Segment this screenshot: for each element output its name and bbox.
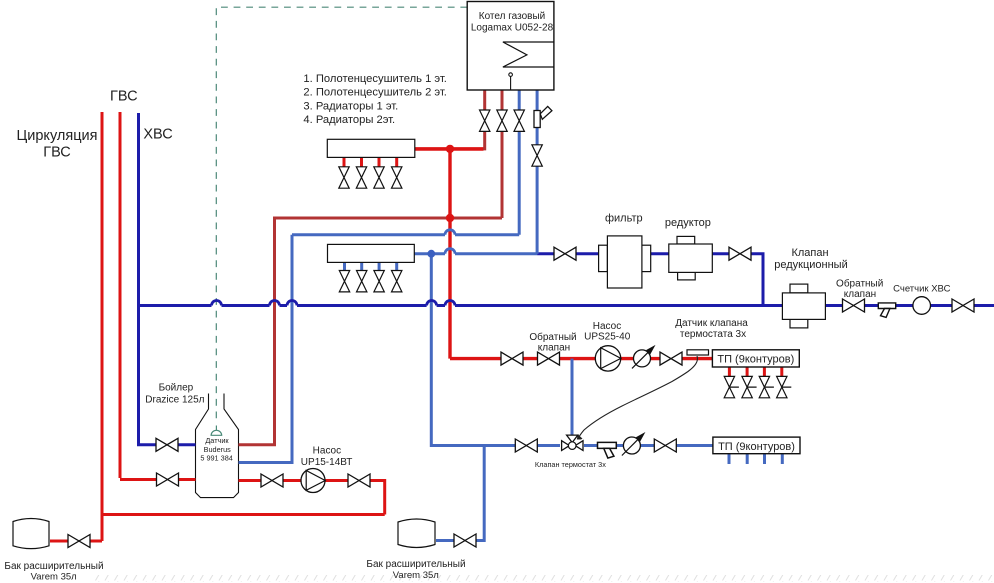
svg-text:ТП (9контуров): ТП (9контуров) xyxy=(718,441,795,453)
svg-text:Бойлер: Бойлер xyxy=(159,382,194,393)
svg-text:термостата 3х: термостата 3х xyxy=(680,329,746,340)
svg-text:Обратный: Обратный xyxy=(529,331,576,343)
svg-text:ХВС: ХВС xyxy=(143,127,172,143)
svg-text:Бак расширительный: Бак расширительный xyxy=(366,559,465,570)
svg-text:ТП (9контуров): ТП (9контуров) xyxy=(717,354,794,366)
svg-text:3. Радиаторы 1 эт.: 3. Радиаторы 1 эт. xyxy=(303,100,398,112)
svg-text:Котел газовый: Котел газовый xyxy=(479,11,545,22)
svg-text:Varem 35л: Varem 35л xyxy=(393,570,439,581)
svg-text:Varem 35л: Varem 35л xyxy=(31,572,77,583)
svg-text:Drazice 125л: Drazice 125л xyxy=(145,394,204,405)
svg-text:Клапан термостат 3х: Клапан термостат 3х xyxy=(535,460,606,469)
svg-text:Бак расширительный: Бак расширительный xyxy=(4,561,103,572)
svg-text:Обратный: Обратный xyxy=(836,277,883,289)
svg-text:1. Полотенцесушитель 1 эт.: 1. Полотенцесушитель 1 эт. xyxy=(303,73,447,85)
svg-text:5 991 384: 5 991 384 xyxy=(200,454,232,463)
svg-text:редуктор: редуктор xyxy=(665,217,711,229)
svg-text:Циркуляция: Циркуляция xyxy=(17,128,98,144)
svg-text:Клапан: Клапан xyxy=(791,247,828,259)
svg-text:клапан: клапан xyxy=(844,289,876,300)
svg-text:ГВС: ГВС xyxy=(110,88,138,104)
svg-text:Logamax U052-28: Logamax U052-28 xyxy=(471,22,554,33)
svg-text:Датчик: Датчик xyxy=(205,436,229,445)
svg-text:Счетчик ХВС: Счетчик ХВС xyxy=(893,284,950,295)
svg-text:Датчик клапана: Датчик клапана xyxy=(675,318,748,329)
svg-text:2. Полотенцесушитель 2 эт.: 2. Полотенцесушитель 2 эт. xyxy=(303,87,447,99)
svg-text:фильтр: фильтр xyxy=(605,213,643,225)
svg-text:UPS25-40: UPS25-40 xyxy=(584,332,631,343)
svg-text:клапан: клапан xyxy=(538,342,570,353)
svg-text:4. Радиаторы 2эт.: 4. Радиаторы 2эт. xyxy=(303,114,395,126)
svg-text:Насос: Насос xyxy=(313,445,341,456)
svg-text:UP15-14ВТ: UP15-14ВТ xyxy=(301,457,353,468)
svg-text:Насос: Насос xyxy=(593,321,621,332)
svg-text:редукционный: редукционный xyxy=(774,259,848,271)
svg-text:ГВС: ГВС xyxy=(43,145,71,161)
